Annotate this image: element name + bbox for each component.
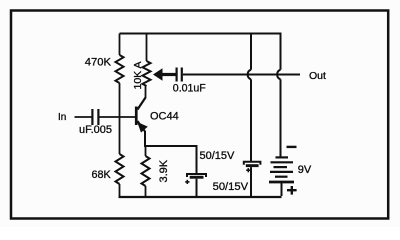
wire: right rail down to battery with hop over Out wire xyxy=(277,33,280,158)
svg-text:10K A: 10K A xyxy=(132,61,144,89)
wire: 68K bottom lead xyxy=(119,184,121,197)
resistor R2 68K xyxy=(116,154,124,184)
capacitor uF .005 input xyxy=(91,109,99,125)
svg-text:3.9K: 3.9K xyxy=(158,159,170,182)
capacitor C1 50/15V emitter bypass xyxy=(185,174,206,197)
resistor R3 3.9K xyxy=(142,156,150,186)
wire: supply branch to C2 with hop over Out wire xyxy=(248,34,251,162)
svg-text:50/15V: 50/15V xyxy=(200,150,236,162)
node In lead wire xyxy=(75,116,92,118)
svg-text:68K: 68K xyxy=(92,169,112,181)
potentiometer 10K A element xyxy=(143,61,151,86)
svg-text:Out: Out xyxy=(309,70,326,82)
wire: base node to 68K xyxy=(119,117,121,154)
svg-text:470K: 470K xyxy=(85,57,112,69)
wire: 3.9K bottom lead xyxy=(145,186,147,197)
capacitor C2 50/15V supply filter xyxy=(244,162,261,197)
wire: pot top lead xyxy=(146,34,148,62)
wire: collector to pot bottom xyxy=(145,86,147,98)
battery minus sign xyxy=(287,146,297,148)
battery plus sign xyxy=(287,186,297,195)
transistor Q1 OC44 xyxy=(135,98,148,133)
svg-text:uF.005: uF.005 xyxy=(79,124,112,136)
wire: bottom ground rail xyxy=(119,196,282,198)
capacitor 0.01uF xyxy=(176,68,183,82)
battery B1 9V xyxy=(269,157,294,196)
wire: base wire from input cap to transistor base xyxy=(100,116,136,118)
resistor R1 470K xyxy=(116,55,124,83)
svg-text:0.01uF: 0.01uF xyxy=(173,83,207,95)
wire: output coupling to Out terminal xyxy=(183,74,300,76)
wire: 470K branch vertical (rail to base node) xyxy=(119,34,121,118)
svg-text:50/15V: 50/15V xyxy=(213,181,249,193)
svg-text:9V: 9V xyxy=(298,164,312,176)
wire: emitter down and right to bypass cap corner xyxy=(145,131,197,173)
svg-text:OC44: OC44 xyxy=(150,110,179,122)
wire: 3.9K top lead xyxy=(145,146,147,156)
potentiometer wiper arrow xyxy=(153,68,177,80)
svg-text:In: In xyxy=(58,112,66,123)
wire: top supply rail xyxy=(120,33,281,35)
